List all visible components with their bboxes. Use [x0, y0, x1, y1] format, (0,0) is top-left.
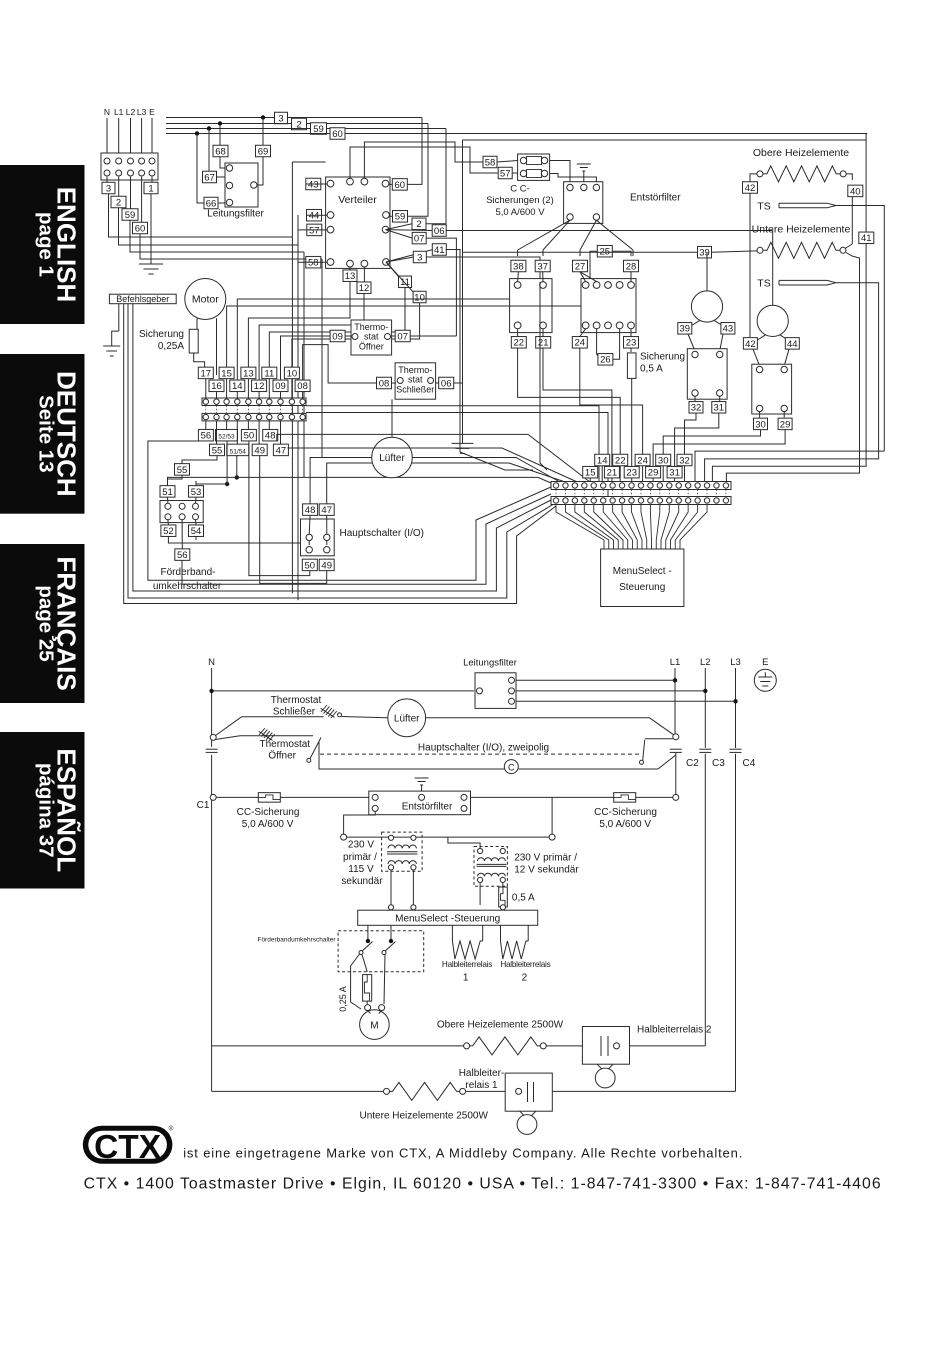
svg-text:08: 08 — [297, 381, 308, 392]
svg-text:N: N — [208, 657, 215, 668]
svg-text:Halbleiterrelais 2: Halbleiterrelais 2 — [637, 1025, 712, 1036]
svg-text:1: 1 — [463, 973, 469, 984]
svg-text:C: C — [508, 762, 515, 772]
svg-text:ist eine eingetragene Marke vo: ist eine eingetragene Marke von CTX, A M… — [183, 1146, 743, 1161]
svg-text:Entstörfilter: Entstörfilter — [402, 802, 453, 813]
svg-text:59: 59 — [395, 212, 406, 223]
svg-text:TS: TS — [757, 278, 770, 290]
svg-text:CC-Sicherung: CC-Sicherung — [594, 807, 657, 818]
svg-text:55: 55 — [177, 465, 188, 476]
svg-text:12 V sekundär: 12 V sekundär — [514, 865, 579, 876]
svg-text:43: 43 — [723, 324, 734, 335]
svg-text:0,25 A: 0,25 A — [338, 986, 348, 1012]
svg-text:Verteiler: Verteiler — [338, 194, 377, 206]
svg-text:22: 22 — [514, 338, 525, 349]
svg-text:07: 07 — [414, 234, 425, 245]
svg-text:Halbleiterrelais: Halbleiterrelais — [500, 960, 550, 969]
svg-text:08: 08 — [379, 378, 390, 389]
svg-text:58: 58 — [485, 157, 496, 168]
svg-text:41: 41 — [434, 245, 445, 256]
svg-text:0,5 A: 0,5 A — [512, 893, 535, 904]
svg-text:55: 55 — [212, 445, 223, 456]
svg-text:41: 41 — [861, 233, 872, 244]
svg-text:06: 06 — [434, 226, 445, 237]
svg-text:Schließer: Schließer — [396, 384, 434, 394]
svg-text:60: 60 — [395, 180, 406, 191]
svg-text:Halbleiterrelais: Halbleiterrelais — [442, 960, 492, 969]
svg-text:Steuerung: Steuerung — [619, 582, 665, 593]
svg-text:30: 30 — [658, 455, 669, 466]
svg-text:Lüfter: Lüfter — [379, 453, 405, 464]
svg-text:página 37: página 37 — [35, 763, 58, 858]
svg-text:39: 39 — [680, 324, 691, 335]
svg-text:N: N — [104, 107, 110, 117]
svg-text:47: 47 — [321, 505, 332, 516]
svg-text:16: 16 — [211, 381, 222, 392]
svg-text:Förderbandumkehrschalter: Förderbandumkehrschalter — [257, 937, 336, 944]
svg-text:Sicherung: Sicherung — [139, 329, 184, 340]
svg-text:39: 39 — [699, 248, 710, 259]
svg-text:Halbleiter-: Halbleiter- — [459, 1068, 505, 1079]
svg-text:Öffner: Öffner — [359, 342, 384, 352]
svg-text:23: 23 — [626, 468, 637, 479]
svg-text:page 1: page 1 — [35, 212, 58, 277]
svg-text:14: 14 — [232, 381, 243, 392]
svg-text:59: 59 — [125, 210, 136, 221]
svg-text:67: 67 — [204, 172, 215, 183]
svg-text:48: 48 — [265, 431, 276, 442]
svg-text:Sicherungen (2): Sicherungen (2) — [486, 195, 554, 206]
svg-text:54: 54 — [191, 526, 202, 537]
svg-text:12: 12 — [254, 381, 265, 392]
svg-text:Hauptschalter (I/O), zweipolig: Hauptschalter (I/O), zweipolig — [418, 743, 549, 754]
svg-text:Befehlsgeber: Befehlsgeber — [116, 294, 169, 304]
svg-text:32: 32 — [679, 455, 690, 466]
svg-text:5,0 A/600 V: 5,0 A/600 V — [242, 819, 294, 830]
svg-text:29: 29 — [648, 468, 659, 479]
svg-text:L2: L2 — [700, 657, 711, 668]
svg-text:10: 10 — [414, 292, 425, 303]
svg-text:57: 57 — [309, 225, 320, 236]
svg-text:49: 49 — [321, 560, 332, 571]
svg-text:Entstörfilter: Entstörfilter — [630, 193, 681, 204]
svg-text:Leitungsfilter: Leitungsfilter — [463, 658, 517, 669]
svg-text:68: 68 — [215, 146, 226, 157]
svg-text:Thermo-: Thermo- — [398, 365, 432, 375]
svg-text:primär /: primär / — [343, 852, 377, 863]
svg-text:sekundär: sekundär — [341, 876, 383, 887]
svg-text:29: 29 — [780, 419, 791, 430]
svg-text:Förderband-: Förderband- — [160, 567, 215, 578]
svg-text:3: 3 — [106, 183, 111, 194]
svg-text:51: 51 — [162, 487, 173, 498]
svg-text:C C-: C C- — [510, 184, 530, 195]
svg-text:®: ® — [169, 1125, 174, 1133]
svg-text:Seite 13: Seite 13 — [35, 395, 58, 473]
svg-text:31: 31 — [669, 468, 680, 479]
svg-text:24: 24 — [575, 338, 586, 349]
svg-text:21: 21 — [538, 338, 549, 349]
svg-text:MenuSelect -Steuerung: MenuSelect -Steuerung — [395, 914, 500, 925]
svg-text:Lüfter: Lüfter — [394, 714, 420, 725]
svg-text:Untere Heizelemente: Untere Heizelemente — [752, 224, 851, 236]
svg-text:230 V: 230 V — [348, 840, 374, 851]
svg-text:3: 3 — [417, 252, 422, 263]
svg-text:0,25A: 0,25A — [158, 341, 184, 352]
svg-text:2: 2 — [416, 219, 421, 230]
svg-text:CC-Sicherung: CC-Sicherung — [237, 807, 300, 818]
svg-text:E: E — [149, 107, 155, 117]
svg-text:TS: TS — [757, 201, 770, 213]
svg-text:5,0 A/600 V: 5,0 A/600 V — [599, 819, 651, 830]
svg-text:CTX • 1400 Toastmaster D: CTX • 1400 Toastmaster Drive • Elgin, IL… — [84, 1176, 882, 1193]
svg-text:12: 12 — [359, 283, 370, 294]
svg-text:52: 52 — [163, 526, 174, 537]
svg-text:Obere Heizelemente: Obere Heizelemente — [753, 147, 849, 159]
svg-text:11: 11 — [264, 368, 274, 379]
svg-text:C3: C3 — [712, 758, 725, 769]
svg-text:27: 27 — [575, 261, 586, 272]
svg-text:stat: stat — [364, 332, 379, 342]
svg-text:47: 47 — [276, 445, 287, 456]
svg-text:60: 60 — [332, 129, 343, 140]
svg-text:L3: L3 — [137, 107, 147, 117]
svg-text:115 V: 115 V — [348, 864, 374, 875]
svg-text:C2: C2 — [686, 758, 699, 769]
svg-text:49: 49 — [254, 445, 265, 456]
svg-text:Motor: Motor — [192, 294, 219, 306]
svg-text:L1: L1 — [670, 657, 681, 668]
svg-text:50: 50 — [305, 560, 316, 571]
svg-text:26: 26 — [600, 355, 611, 366]
svg-text:2: 2 — [116, 197, 121, 208]
svg-text:21: 21 — [607, 468, 618, 479]
svg-text:56: 56 — [201, 431, 212, 442]
svg-text:Schließer: Schließer — [273, 707, 316, 718]
svg-text:L3: L3 — [730, 657, 741, 668]
svg-text:17: 17 — [201, 368, 212, 379]
svg-text:24: 24 — [637, 455, 648, 466]
svg-text:Sicherung: Sicherung — [640, 352, 685, 363]
svg-text:5,0 A/600 V: 5,0 A/600 V — [495, 207, 545, 218]
svg-text:51/54: 51/54 — [230, 448, 247, 455]
svg-text:48: 48 — [305, 505, 316, 516]
svg-text:umkehrschalter: umkehrschalter — [153, 581, 222, 592]
svg-text:44: 44 — [787, 339, 798, 350]
svg-text:69: 69 — [258, 146, 269, 157]
svg-text:L1: L1 — [114, 107, 124, 117]
svg-text:30: 30 — [755, 419, 766, 430]
svg-text:C4: C4 — [743, 758, 756, 769]
svg-text:CTX: CTX — [94, 1129, 162, 1166]
svg-text:40: 40 — [850, 186, 861, 197]
svg-text:Untere Heizelemente 2500W: Untere Heizelemente 2500W — [359, 1111, 488, 1122]
svg-text:E: E — [762, 657, 768, 668]
svg-text:3: 3 — [278, 113, 283, 124]
svg-text:C1: C1 — [197, 800, 210, 811]
svg-text:44: 44 — [309, 211, 320, 222]
svg-text:14: 14 — [597, 455, 608, 466]
svg-text:58: 58 — [308, 258, 319, 269]
svg-text:Thermostat: Thermostat — [271, 695, 322, 706]
svg-text:42: 42 — [745, 339, 756, 350]
svg-text:50: 50 — [244, 431, 255, 442]
svg-text:Hauptschalter (I/O): Hauptschalter (I/O) — [340, 528, 424, 539]
svg-text:23: 23 — [626, 338, 637, 349]
svg-text:42: 42 — [745, 183, 756, 194]
svg-text:1: 1 — [148, 183, 153, 194]
svg-text:60: 60 — [135, 223, 146, 234]
svg-text:28: 28 — [626, 261, 637, 272]
svg-text:230 V primär /: 230 V primär / — [514, 852, 577, 863]
svg-text:57: 57 — [500, 168, 511, 179]
svg-text:09: 09 — [275, 381, 286, 392]
svg-text:07: 07 — [397, 331, 408, 342]
svg-text:page 25: page 25 — [35, 585, 58, 661]
svg-text:0,5 A: 0,5 A — [640, 364, 663, 375]
svg-text:15: 15 — [585, 468, 596, 479]
svg-text:53: 53 — [191, 487, 202, 498]
svg-text:stat: stat — [408, 374, 423, 384]
svg-text:Leitungsfilter: Leitungsfilter — [207, 209, 264, 220]
svg-text:56: 56 — [177, 550, 188, 561]
svg-text:2: 2 — [522, 973, 528, 984]
svg-text:32: 32 — [691, 403, 702, 414]
svg-text:Thermostat: Thermostat — [260, 739, 311, 750]
svg-text:Öffner: Öffner — [268, 750, 296, 762]
svg-text:37: 37 — [537, 261, 548, 272]
svg-text:Obere Heizelemente 2500W: Obere Heizelemente 2500W — [437, 1020, 564, 1031]
svg-text:15: 15 — [221, 368, 232, 379]
svg-text:MenuSelect -: MenuSelect - — [613, 566, 672, 577]
svg-text:22: 22 — [615, 455, 626, 466]
svg-text:L2: L2 — [126, 107, 136, 117]
svg-text:13: 13 — [345, 271, 356, 282]
svg-text:M: M — [370, 1021, 378, 1032]
svg-text:31: 31 — [714, 403, 725, 414]
svg-text:43: 43 — [308, 179, 319, 190]
svg-text:13: 13 — [243, 368, 254, 379]
svg-text:09: 09 — [332, 331, 343, 342]
svg-text:38: 38 — [513, 261, 524, 272]
svg-text:10: 10 — [287, 368, 298, 379]
svg-text:relais 1: relais 1 — [465, 1080, 498, 1091]
svg-text:52/53: 52/53 — [218, 434, 235, 441]
svg-text:Thermo-: Thermo- — [354, 322, 388, 332]
svg-text:06: 06 — [441, 378, 452, 389]
